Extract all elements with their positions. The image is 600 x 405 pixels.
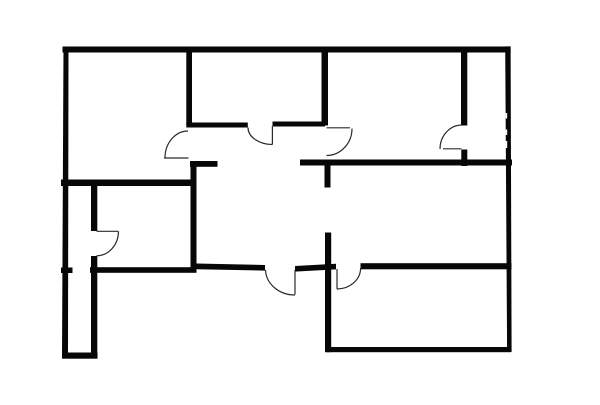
wall middle horizontal right-center section	[295, 264, 336, 272]
wall bottom-right room left	[325, 233, 331, 353]
door G bottom-middle-right leaf	[336, 269, 338, 289]
wall hallway bottom right section	[300, 160, 512, 166]
wall divider top-middle / top-right	[322, 47, 329, 126]
door A hallway upper-left leaf	[164, 157, 189, 159]
wall closet bottom cap	[62, 353, 98, 359]
door B top-middle room leaf	[271, 126, 273, 145]
door E closet leaf	[97, 230, 119, 232]
wall top-middle room bottom left piece	[186, 123, 248, 128]
wall divider top-right room	[461, 47, 467, 126]
door A hallway upper-left arc	[165, 131, 188, 158]
wall closet right lower	[91, 256, 97, 359]
door F bottom-center leaf	[294, 270, 296, 295]
wall divider top-left / top-middle	[186, 47, 192, 126]
door C hallway right arc	[327, 129, 353, 156]
wall bottom-right room bottom	[326, 347, 511, 352]
wall middle horizontal center section	[197, 264, 266, 271]
door D top-right room arc	[440, 125, 462, 149]
wall top-left room bottom	[61, 180, 193, 187]
door D top-right room leaf	[443, 148, 462, 150]
door E closet arc	[97, 231, 119, 256]
wall hallway bottom left stub	[190, 161, 218, 167]
wall closet right upper	[91, 182, 97, 231]
wall middle right upper stub	[325, 166, 331, 188]
wall right exterior	[505, 46, 511, 352]
wall middle horizontal right section	[361, 263, 512, 269]
wall middle horizontal left stub at exterior	[61, 268, 73, 274]
wall middle horizontal left section	[90, 267, 197, 273]
door B top-middle room arc	[248, 128, 272, 145]
notch right wall 3	[506, 141, 508, 148]
wall divider top-right room lower stub	[461, 150, 467, 167]
notch right wall 1	[506, 113, 508, 119]
door C hallway right leaf	[327, 127, 351, 129]
door G bottom-middle-right arc	[337, 268, 361, 289]
wall hall left vertical	[191, 161, 197, 269]
wall top-middle room bottom right piece	[273, 122, 326, 127]
door F bottom-center arc	[266, 270, 296, 295]
wall left exterior	[62, 47, 69, 359]
wall top exterior	[63, 47, 511, 53]
notch right wall 2	[506, 130, 508, 136]
